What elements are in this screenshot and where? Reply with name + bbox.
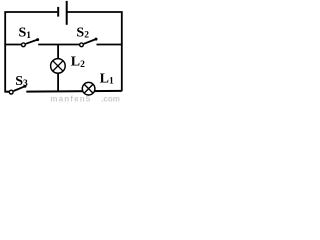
svg-text:.com: .com — [101, 94, 120, 102]
svg-text:manfen5: manfen5 — [50, 94, 91, 102]
